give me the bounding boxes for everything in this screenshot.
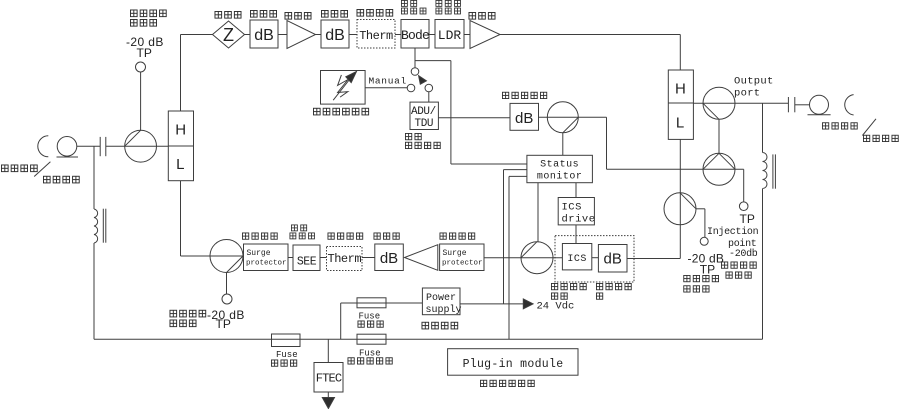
wire junction down to transformer T2 — [762, 103, 764, 152]
label Fuse F3 — [359, 349, 381, 359]
output capacitor C2 (dc block) — [788, 97, 794, 112]
input test coupler DC1 — [125, 130, 157, 162]
wire status monitor to 24V line — [504, 170, 527, 304]
wire Bode to LDR — [429, 34, 435, 36]
svg-text:TP: TP — [216, 317, 231, 331]
wire power branch from rail — [341, 303, 423, 339]
reverse input coupler DC7 — [664, 193, 696, 225]
svg-text:24 Vdc: 24 Vdc — [537, 300, 575, 312]
output connector center pin circle — [810, 95, 829, 114]
label TP reverse input — [700, 263, 715, 277]
reverse amplifier A3 (leftward) — [405, 245, 438, 271]
wire rail to FTEC — [327, 339, 329, 362]
ICS drive box — [558, 198, 595, 226]
label TP reverse — [216, 317, 231, 331]
label Injection — [707, 226, 759, 238]
reverse noise switch ICS box — [562, 244, 591, 270]
wire status monitor to bottom rail — [509, 176, 527, 339]
label 放大器 over A1 — [285, 12, 311, 19]
pilot attenuator AT5 (dB) — [510, 103, 539, 130]
svg-text:Surge: Surge — [443, 249, 467, 258]
wire DC2 tap to reverse TP — [226, 273, 228, 295]
svg-text:Fuse: Fuse — [359, 312, 381, 322]
label 反向 over SEE — [291, 225, 306, 231]
value -20 dB reverse TP — [207, 308, 245, 322]
label 均衡器 over Bode — [401, 8, 426, 14]
label 预倾斜 over LDR — [436, 0, 461, 6]
output connector ground bar — [808, 114, 831, 116]
injection test point TP circle — [739, 202, 748, 211]
fuse F1 on rail — [272, 334, 301, 347]
svg-text:port: port — [734, 88, 760, 100]
wire ICS drive to ICS switch — [575, 225, 577, 244]
label 熔断器 F1 — [271, 360, 296, 366]
input test point TP circle — [136, 62, 146, 72]
svg-text:H: H — [675, 81, 686, 98]
wire switch to ADU/TDU — [428, 92, 430, 102]
svg-text:FTEC: FTEC — [316, 371, 342, 385]
wire DC1 tap to input TP — [140, 72, 142, 130]
switch auto contact circle — [425, 84, 433, 92]
output coupler DC5 — [703, 87, 735, 119]
label 衰减器 over AT3 — [374, 233, 399, 239]
wire ADU/TDU to pilot attenuator — [438, 117, 510, 119]
wire Z1 to attenuator AT1 — [245, 34, 251, 36]
wire AT1 to amplifier A1 — [278, 34, 287, 36]
svg-text:ADU/: ADU/ — [411, 106, 436, 118]
svg-text:TP: TP — [700, 263, 715, 277]
label 熔断器 F2 — [358, 321, 383, 327]
reverse attenuator AT4 (dB) — [598, 245, 627, 273]
Bode equalizer (electrically tuned) — [401, 20, 429, 49]
wire ICS to attenuator AT4 — [592, 257, 599, 259]
capacitor C1 (dc block) — [100, 137, 106, 156]
svg-text:Injection: Injection — [707, 226, 759, 238]
label 检测口 reverse input TP — [684, 286, 709, 292]
svg-text:dB: dB — [380, 250, 398, 267]
label 均衡器 over Z1 — [215, 11, 241, 18]
svg-text:ICS: ICS — [562, 201, 582, 213]
label 反向输入 reverse input TP — [684, 275, 719, 281]
label 正向输出 at output port — [822, 123, 857, 129]
svg-text:dB: dB — [604, 251, 622, 268]
svg-text:Output: Output — [734, 76, 774, 88]
label 检测口 injection — [726, 272, 751, 278]
label 正向输出 injection — [721, 262, 756, 268]
svg-text:H: H — [175, 122, 186, 139]
label 温度补偿 over TH2 — [328, 233, 363, 239]
svg-text:Power: Power — [426, 293, 456, 304]
input connector center pin circle — [57, 137, 77, 157]
wire DC7 tap to reverse-input TP — [696, 209, 705, 238]
label 应答器输入口 under plug-in module — [480, 380, 534, 386]
fuse F3 on rail — [357, 334, 386, 344]
svg-text:TP: TP — [137, 46, 152, 60]
svg-text:Therm: Therm — [328, 252, 362, 266]
switch arrow — [419, 76, 427, 85]
wire AT2 to thermal block TH1 — [349, 34, 357, 36]
label 放大器 over A2 — [469, 12, 495, 19]
bottom power rail — [94, 338, 763, 340]
svg-text:protector: protector — [246, 260, 287, 268]
label 正向输入 at input port — [1, 165, 37, 172]
slash separator output port — [862, 119, 876, 136]
wire TH1 to Bode equalizer — [395, 34, 401, 36]
svg-text:supply: supply — [426, 304, 462, 316]
label 衰减器 over AT1 — [250, 10, 276, 17]
label 温度补偿 over TH1 — [357, 9, 393, 16]
wire right H/L low port down through DC7 — [679, 139, 681, 258]
svg-text:Surge: Surge — [247, 249, 271, 258]
label point — [728, 238, 757, 250]
slash separator input port — [34, 162, 50, 177]
label Fuse F1 — [276, 350, 298, 360]
transformer T1 winding — [94, 209, 98, 243]
label 保护电路 over SP2 — [440, 233, 475, 239]
input connector ground bar — [57, 156, 79, 158]
transformer T2 core — [773, 154, 776, 188]
switch common contact circle — [411, 68, 419, 76]
label 开关电源 under power supply — [422, 322, 458, 329]
transformer T1 core — [103, 209, 106, 243]
svg-text:Fuse: Fuse — [359, 349, 381, 359]
svg-text:drive: drive — [562, 213, 596, 225]
wire AT4 to right riser — [627, 258, 680, 260]
wire C1 through input coupler DC1 to left H/L — [106, 145, 168, 147]
attenuator AT2 (dB) — [321, 20, 349, 48]
wire Bode wiper down to switch — [414, 48, 416, 68]
dotted group box around ICS and dB — [555, 236, 634, 282]
svg-text:ICS: ICS — [567, 254, 587, 265]
node junction to transformer T1 — [93, 146, 95, 209]
reverse input test point TP circle — [700, 237, 708, 245]
value -20db injection — [729, 248, 758, 260]
svg-text:dB: dB — [254, 27, 274, 44]
wire DC4 tap down to status monitor — [562, 133, 564, 156]
value 24 Vdc — [537, 300, 575, 312]
label 手动增益控制 under manual box — [313, 108, 368, 115]
svg-text:SEE: SEE — [297, 255, 317, 268]
wire A2 output to right H/L diplexer — [500, 35, 680, 71]
svg-text:monitor: monitor — [537, 171, 583, 183]
reverse attenuator AT3 (dB) — [375, 244, 404, 271]
wire SP2 through ICS coupler DC3 to ICS box — [484, 257, 562, 259]
reverse equalizer SEE box — [293, 245, 320, 271]
label 反向噪声 under ICS — [551, 283, 586, 289]
FTEC box — [314, 363, 343, 393]
svg-text:dB: dB — [515, 110, 533, 127]
wire manual box to switch — [365, 87, 407, 89]
svg-text:Plug-in module: Plug-in module — [463, 358, 564, 371]
label 保护电路 over SP1 — [242, 233, 277, 239]
power supply box — [422, 288, 461, 316]
wire DC5 tap to injection coupler DC6 — [718, 119, 720, 153]
svg-text:Fuse: Fuse — [276, 350, 298, 360]
surge protector SP1 box — [244, 244, 289, 271]
surge protector SP2 box — [440, 244, 484, 271]
label 自动 under ADU — [405, 133, 421, 139]
label 电调 over Bode — [401, 0, 416, 6]
svg-text:protector: protector — [442, 260, 483, 268]
label Output port — [734, 76, 774, 100]
label 反向衰减 under AT4 — [596, 283, 631, 289]
amplifier A1 — [287, 21, 316, 49]
wire TH2 to attenuator AT3 — [362, 257, 375, 259]
svg-text:Manual: Manual — [369, 76, 407, 87]
label 均衡器 over LDR — [436, 8, 461, 14]
wire AT5 through pilot coupler DC4 — [539, 116, 607, 118]
wire Bode wiper tap to status feedback riser — [415, 60, 451, 62]
wire DC4 to injection coupler DC6 — [607, 117, 744, 169]
wire FTEC to ground arrow — [327, 392, 329, 399]
thermal compensator TH1 (Therm, dotted) — [357, 20, 395, 49]
value -20 dB input TP — [126, 35, 164, 49]
wire LDR to amplifier A2 — [464, 34, 470, 36]
switch manual contact circle — [407, 84, 415, 92]
label Fuse F2 — [359, 312, 381, 322]
wire from node A to equalizer Z — [181, 34, 213, 36]
svg-text:TP: TP — [740, 212, 755, 226]
label 电源保护器 F3 — [348, 358, 392, 364]
wire A1 to attenuator AT2 — [316, 34, 322, 36]
label 器 under AT4 — [596, 293, 602, 299]
svg-text:TDU: TDU — [415, 118, 434, 130]
wire power supply to 24Vdc arrow — [460, 303, 523, 305]
wire input connector to capacitor C1 — [77, 145, 100, 147]
left H/L diplexer box — [168, 111, 193, 181]
wire right H/L common through output coupler DC5 to C2 — [693, 102, 788, 104]
label 检测口 reverse TP — [170, 320, 196, 327]
wire SEE to thermal TH2 — [320, 257, 327, 259]
attenuator AT1 (dB) — [250, 20, 278, 48]
injection coupler DC6 — [703, 153, 735, 185]
svg-text:L: L — [176, 156, 184, 173]
wire DC3 tap up to status monitor — [537, 183, 539, 242]
label 反向输出 at input port — [43, 176, 79, 183]
transformer T2 winding — [763, 153, 768, 189]
thermal compensator TH2 (Therm, dotted) — [327, 247, 363, 271]
pre-tilt equalizer LDR — [435, 20, 464, 49]
ground arrow under FTEC — [322, 398, 334, 409]
label 均衡器 over SEE — [290, 233, 315, 239]
label TP injection — [740, 212, 755, 226]
value -20 dB reverse input TP — [688, 251, 725, 265]
label 导频衰减器 over AT5 — [502, 92, 546, 98]
pilot coupler DC4 — [547, 102, 578, 133]
label TP input — [137, 46, 152, 60]
svg-text:-20db: -20db — [729, 248, 758, 260]
plug-in module box — [448, 349, 578, 376]
label 正向输入 input TP — [130, 10, 166, 17]
fuse F2 on power branch — [357, 298, 386, 308]
input connector shell arc — [38, 136, 49, 157]
wire status monitor to ICS drive — [575, 183, 577, 198]
label 反向输入 at output port — [863, 135, 898, 141]
label 衰减器 over AT2 — [321, 10, 347, 17]
ICS coupler DC3 — [521, 242, 553, 274]
output connector shell arc — [845, 95, 854, 115]
svg-text:Status: Status — [540, 160, 579, 171]
label 开关 under ICS — [551, 293, 567, 299]
wire ADU feedback to status monitor — [451, 61, 527, 164]
wire DC6 tap to injection TP — [743, 169, 745, 202]
equalizer Z1 (diamond) — [213, 21, 245, 48]
status monitor box — [527, 155, 593, 182]
right H/L diplexer box — [668, 70, 693, 139]
svg-text:L: L — [676, 115, 684, 132]
wire SP1 to SEE — [288, 257, 293, 259]
svg-text:LDR: LDR — [438, 28, 462, 43]
svg-text:Bode: Bode — [401, 28, 429, 43]
wire left H/L low port down to reverse chain — [181, 181, 244, 256]
wire T1 to bottom rail — [93, 243, 95, 339]
label 增益控制 under ADU — [405, 142, 440, 148]
wire left H/L top port up to forward chain — [180, 35, 182, 112]
manual gain control box — [321, 71, 366, 105]
label 检测口 input TP — [130, 19, 156, 26]
svg-text:Therm: Therm — [359, 29, 393, 43]
wire T2 to bottom rail — [762, 189, 764, 340]
reverse output test point TP circle — [222, 294, 232, 304]
wire C2 to output connector — [795, 104, 810, 106]
ADU/TDU automatic gain control box — [410, 102, 438, 130]
reverse output coupler DC2 — [210, 240, 243, 273]
label 反向输出 reverse TP — [170, 310, 206, 317]
label Manual — [369, 76, 407, 87]
amplifier A2 — [470, 21, 500, 49]
24 Vdc output arrow — [523, 299, 533, 309]
svg-text:dB: dB — [325, 27, 345, 44]
svg-text:Z: Z — [223, 25, 234, 45]
